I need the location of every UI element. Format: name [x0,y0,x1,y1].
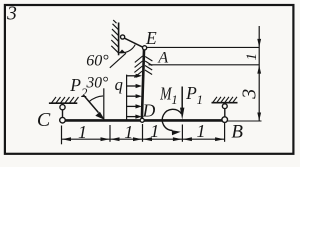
sleeve hatching left of member (at A) [134,56,142,77]
pin D on beam [140,118,144,122]
sleeve hatching right of member (at A) [145,57,153,75]
svg-text:60°: 60° [86,52,109,69]
svg-text:D: D [142,101,156,121]
pin on wall [121,35,125,39]
border frame [5,5,294,154]
q arrows [127,76,137,117]
pin E [143,46,147,50]
30-deg arc [89,96,103,102]
support C: ceiling with hatching [49,102,77,104]
extension line from A [149,64,260,66]
right dimension line [258,26,260,121]
svg-text:q: q [115,75,123,94]
svg-text:30°: 30° [85,75,108,92]
arrow down to beam level [257,113,261,121]
30-deg reference vertical line [103,88,105,119]
svg-text:1: 1 [197,121,206,141]
svg-text:P: P [69,75,81,95]
extension line from B (right) [228,120,262,122]
svg-text:3: 3 [239,89,261,100]
svg-text:3: 3 [6,4,17,25]
60-deg angle arc with arrow [119,45,135,53]
svg-text:E: E [145,28,157,48]
support B: ceiling with hatching [212,102,238,104]
svg-text:1: 1 [150,121,159,141]
rod (wall pin to E) [125,38,143,47]
extension line from E [147,46,260,48]
svg-text:B: B [231,122,243,143]
bottom dimension arrows [62,137,224,141]
svg-text:1: 1 [124,122,133,142]
svg-text:C: C [37,109,51,131]
svg-text:1: 1 [78,122,87,142]
arrow down to E-line [257,39,261,47]
svg-text:1: 1 [197,93,203,107]
C support link [62,110,64,118]
pin C on beam [60,117,66,123]
B support pin (top) [222,104,227,109]
moment M1 arc with arrow [162,109,181,130]
arrow up to A-line [257,65,261,73]
B support link [224,109,226,117]
wall (top-left, for 60-deg rod) [111,20,119,55]
svg-text:M: M [159,85,172,104]
beam C-B [63,119,225,122]
pin B on beam [222,117,228,123]
svg-text:P: P [185,83,197,103]
svg-text:A: A [157,50,168,67]
bottom dimension line [62,138,225,140]
P2 line with arrow [83,95,98,113]
svg-text:1: 1 [244,53,260,61]
force P1 (vertical, down) [181,87,183,111]
bottom dimension: extension ticks [62,123,225,145]
svg-text:1: 1 [171,93,177,107]
member E-D (vertical bar) [142,50,144,119]
C support pin (top) [60,105,65,110]
distributed load q: tail line [126,75,128,120]
